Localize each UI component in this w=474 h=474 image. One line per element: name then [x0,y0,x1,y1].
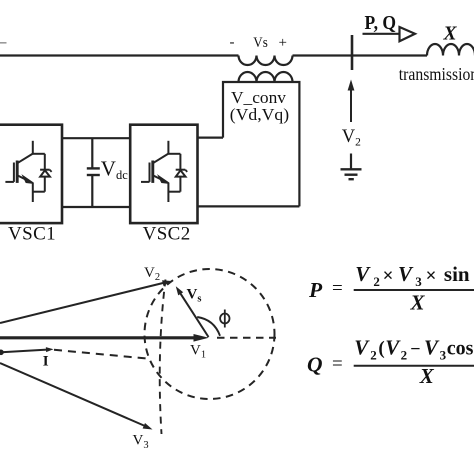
svg-text:V2: V2 [342,127,361,148]
phasor I current vector [2,347,54,352]
label X [443,24,458,45]
svg-text:×: × [426,266,437,287]
svg-text:X: X [419,364,435,388]
svg-text:transmission li: transmission li [399,64,474,84]
equation P active power [308,262,470,302]
ground at V2 reference [341,154,362,180]
wire DC bus bottom [62,206,130,208]
converter block VSC1 [0,125,62,223]
svg-text:2: 2 [370,347,377,362]
svg-text:=: = [332,278,343,299]
svg-text:P, Q: P, Q [365,13,397,34]
svg-text:-: - [230,35,235,51]
svg-text:VSC1: VSC1 [8,224,56,245]
label Vs [253,35,268,51]
svg-text:V3: V3 [133,433,149,451]
wire VSC2 output to V_conv box [198,137,224,139]
svg-text:Q: Q [307,353,323,377]
svg-text:V: V [385,336,401,360]
label phi [220,310,229,328]
dashed extension of I [54,350,148,359]
wire DC bus top [62,137,130,139]
equation Q reactive power [307,336,474,377]
denominator X of Q [419,364,435,388]
node V2 bus tick [351,35,354,70]
transistor Q2 IGBT with diode inside VSC2 [141,141,187,202]
wire: main AC bus left segment [0,54,239,56]
label V1 [190,342,206,360]
label transmission line [399,64,474,84]
svg-text:X: X [443,24,458,45]
svg-text:3: 3 [440,347,447,362]
svg-text:P: P [308,278,323,302]
svg-text:I: I [43,354,49,370]
label V3 [133,433,149,451]
phasor V1 vector [0,334,209,342]
phasor V3 vector [0,363,153,430]
svg-text:VSC2: VSC2 [143,224,191,245]
svg-text:2: 2 [401,347,408,362]
svg-text:Vdc: Vdc [101,157,128,183]
denominator X of P [410,290,426,314]
label VSC1 [8,224,56,245]
label - minus polarity of Vs [230,35,235,51]
svg-text:X: X [410,290,426,314]
inductor X transmission line reactance [427,44,474,56]
wire VSC2 bottom to V_conv box [198,205,300,207]
svg-text:sin: sin [444,262,470,286]
box V_conv converter voltage [223,82,299,206]
svg-text:−: − [410,339,420,359]
dashed locus arc V2 to V3 [160,280,166,435]
label V2 bus voltage [342,127,361,148]
angle arc phi [197,317,220,336]
dashed extension of V1 [217,337,276,339]
dashed circle locus of Vs [145,269,275,399]
inductor coupling coil secondary [239,72,293,82]
svg-text:(Vd,Vq): (Vd,Vq) [230,105,289,124]
svg-text:Vs: Vs [187,286,202,304]
label I current [43,354,49,370]
svg-text:2: 2 [373,274,380,289]
inductor Vs series coupling coil (primary) [239,56,293,66]
svg-text:Vs: Vs [253,35,268,51]
stray crop mark top-left [0,42,7,44]
fraction bar P [354,289,474,291]
fraction bar Q [354,365,474,367]
label (Vd,Vq) [230,105,289,124]
svg-text:V1: V1 [190,342,206,360]
converter block VSC2 [130,125,197,223]
label Vs phasor [187,286,202,304]
svg-text:V2: V2 [144,265,160,283]
label + plus polarity of Vs [279,35,287,51]
label V_conv [231,88,287,107]
svg-text:cos: cos [447,338,474,360]
svg-text:V: V [355,262,371,286]
node origin dot [0,350,4,356]
label P,Q power flow [365,13,397,34]
svg-text:V: V [398,262,414,286]
svg-text:=: = [332,354,343,375]
label V2 phasor [144,265,160,283]
label Vdc [101,157,128,183]
transistor Q1 IGBT with diode inside VSC1 [5,141,51,202]
phasor V2 vector [0,280,172,323]
phasor Vs vector [176,286,209,337]
capacitor Vdc [87,138,100,207]
svg-text:+: + [279,35,287,51]
wire: main AC bus middle segment [293,54,428,56]
svg-text:V: V [354,336,370,360]
svg-text:×: × [383,266,394,287]
arrow V2 bus voltage annotation [348,80,355,123]
label VSC2 [143,224,191,245]
svg-text:3: 3 [415,274,422,289]
arrow P,Q direction [363,27,416,41]
svg-text:V: V [424,336,440,360]
svg-text:(: ( [378,338,384,359]
